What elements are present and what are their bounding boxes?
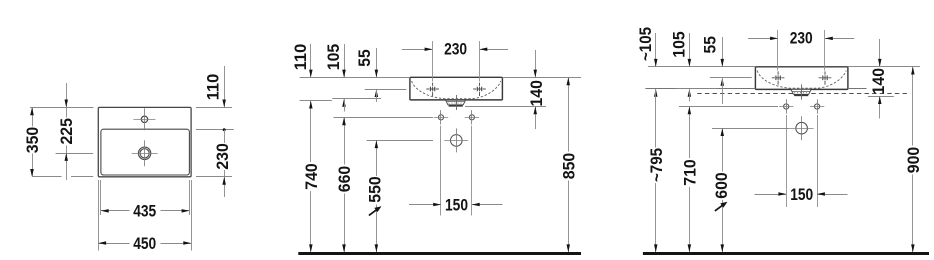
countertop top line left [645,88,755,90]
trap centerline (right) [801,85,803,100]
drain crosshair [132,140,158,166]
dim line 600 [722,128,724,171]
dim line 850 [568,77,570,151]
arrow ~105 up to countertop [654,89,658,97]
arrow 225 bottom (pointing up) [65,153,69,161]
tap hole mark left (right view) [772,71,785,84]
washbasin top view: outer rim 450x350 [98,107,191,176]
arrow 230 bottom (pointing up) [222,177,226,185]
ext line left hole down (right view) [786,115,788,207]
ext line outer-right down [191,180,193,251]
countertop underside dashed line [697,93,910,95]
arrow 225 top (pointing down) [65,100,69,108]
drain pipe circle (front view) [451,135,463,147]
dim line 450 right segment [161,243,192,245]
mounting hole left (front view) [438,115,443,120]
trap bottom flange [449,105,463,107]
ext line top edge (left view, left side) [30,107,94,109]
ext line bottom edge (left view, left side) part1 [32,176,62,178]
tap hole mark left (front view) [426,83,439,96]
arrow 230 right (pointing left) [480,48,488,52]
dim line 435 left segment [101,210,130,212]
arrow ~795 floor [654,244,658,252]
ext line outer-left down [98,180,100,251]
dim line 105 above rim [344,44,346,77]
svg-text:435: 435 [133,202,156,221]
arrow 55 down at rim [375,70,379,78]
tap hole mark right (right view) [819,71,832,84]
mounting hole level ext line (660) [334,117,434,119]
hidden bowl outline dashed (right view) [757,71,846,89]
rim ext line left (middle view) [300,77,410,79]
ext line inner-right down [189,180,191,215]
trap inner line [447,101,465,103]
arrow 230 left (pointing right) [425,48,433,52]
drain pipe circle (right view) [796,122,808,134]
arrow 150 right (right view) [817,192,825,196]
tap hole crosshair [134,108,156,130]
floor line (middle view) [298,252,581,255]
dim line 350 lower segment [32,154,34,177]
arrow 435 right [182,209,190,213]
trap level ext line (110) [300,100,332,102]
svg-text:~795: ~795 [647,148,666,182]
svg-text:550: 550 [366,176,385,203]
arrow 105 up to basin bottom [342,99,346,107]
dim line 140 above (right view) [879,39,881,67]
trap inner line (right) [792,91,810,93]
arrow 550 floor [375,244,379,252]
mounting hole right crosshair (right view) [810,99,824,113]
arrow 600 top [721,128,725,136]
floor line (right view) [643,252,929,255]
arrow 710 top [688,107,692,115]
dim line 140 below [535,106,537,129]
ext line drain center (left view) [56,153,94,155]
rim ext line right (middle view) [502,77,581,79]
drain hole outer circle (top view) [138,147,150,159]
trap bottom flange (right) [794,94,808,96]
mounting hole level ext line (710) [679,106,778,108]
trap bottom ext line (140) [465,106,546,108]
dim line 105 above rim (right view) [689,33,691,67]
dim line ~795 [655,100,657,148]
dim line 225 below (arrow from outside) [66,153,68,180]
arrow 900 floor [911,244,915,252]
arrow 230 left (right view) [770,37,778,41]
drain pipe crosshair (right view) [790,116,814,140]
trap thread ticks [449,103,461,104]
140 lower ext line (right view) [868,96,894,98]
svg-text:150: 150 [445,196,468,215]
svg-text:150: 150 [790,185,813,204]
drain level ext line (600) [712,128,789,130]
mounting hole right crosshair [465,110,479,124]
ext line right hole down to 150 [471,126,473,216]
arrow 105 down at rim [342,70,346,78]
arrow 110 (pointing down) [222,100,226,108]
svg-text:230: 230 [444,39,467,58]
svg-text:55: 55 [355,49,374,67]
tap hole (top view) [141,116,147,122]
dim line 150 left (outside) [409,204,441,206]
drain pipe crosshair [444,128,468,152]
dim line 900 [912,67,914,146]
dim line 710 [689,107,691,159]
ext line tap left up to 230 dim [432,41,434,82]
svg-text:660: 660 [335,166,354,193]
svg-text:900: 900 [904,147,923,174]
basin bottom ext line (105) [332,98,381,100]
dim line 55 above rim [376,48,378,77]
svg-text:740: 740 [302,163,321,190]
arrow 435 left [101,209,109,213]
arrow 55 down (right view) [721,59,725,67]
drain trap outline (front view) [446,100,466,105]
arrow 550 top [375,140,379,148]
arrow 230 right (right view) [825,37,833,41]
trap ticks (right) [795,92,807,93]
svg-text:~105: ~105 [636,27,655,61]
ext line tap right up (right view) [824,30,826,71]
arrow 450 left [98,241,106,245]
dim line 225 inner lower [66,146,68,154]
arrow 140 down (right view) [878,59,882,67]
dim line 230 below [224,177,226,197]
mounting hole left crosshair (right view) [779,99,793,113]
arrow 600 floor [721,244,725,252]
svg-text:105: 105 [324,44,343,71]
arrow 150 right (pointing left) [472,203,480,207]
svg-text:350: 350 [23,127,42,154]
svg-text:55: 55 [701,36,720,54]
dim line 740 [310,101,312,162]
drain hole inner circle [140,149,149,158]
arrow 150 left (right view) [778,192,786,196]
arrow 450 right [183,241,191,245]
washbasin front view (wall mount) [410,77,503,100]
arrow 350 bottom [30,169,34,177]
trap centerline [456,95,458,110]
drain trap outline (right view) [791,90,811,95]
tap level ext line (right view) [710,77,752,79]
hidden bowl outline (dashed) [412,81,501,99]
dim line 230 left (right view) [748,38,778,40]
rim ext line left (right view) [648,66,756,68]
washbasin top view: inner bowl rect 435x230 [101,129,189,175]
dim line 110 above [224,66,226,107]
dim line 150 left (right view) [755,194,787,196]
svg-text:230: 230 [790,29,813,48]
arrow 660 floor [342,244,346,252]
arrow 140 down at rim [534,70,538,78]
dim line 230 lower segment [224,170,226,177]
ext line bottom edge (left view, right side) [196,176,232,178]
dim line 150 right (outside) [472,204,503,206]
dim line 230 left (outside) [402,49,433,51]
svg-text:110: 110 [291,44,310,71]
dim line 140 above [535,50,537,77]
countertop top line right [848,88,867,90]
dim line 55 above rim (right view) [722,37,724,67]
ext line left hole down to 150 [440,126,442,216]
variable-dim mark near 550 [369,210,377,216]
dim line 110 above rim [310,44,312,77]
arrow 105 up to basin bottom (right view) [688,89,692,97]
ext line inner-left down [100,180,102,215]
svg-text:710: 710 [680,159,699,186]
ext line top edge (left view, right side) [196,107,232,109]
ext line inner-top with dot tick [196,129,234,131]
ext line tap right up to 230 dim [479,41,481,82]
mounting hole right (front view) [469,115,474,120]
svg-text:105: 105 [670,31,689,58]
basin-bottom ext segment (105) [675,88,717,90]
svg-text:140: 140 [869,68,888,95]
arrow 850 floor [567,244,571,252]
svg-text:140: 140 [527,80,546,107]
dim line 230 right (right view) [825,38,854,40]
arrow 710 floor [688,244,692,252]
dim line 225 inner upper [66,107,68,117]
arrow 660 top [342,117,346,125]
arrow 140 up [534,106,538,114]
svg-text:450: 450 [133,234,156,253]
arrow 55 up to tap level [375,89,379,97]
washbasin front view (countertop) [755,67,848,90]
arrow ~105 down [654,59,658,67]
chain dot at 110/230 junction [223,128,226,131]
arrow 140 up (right view) [878,96,882,104]
ext line tap left up (right view) [777,30,779,71]
arrow 150 left (pointing right) [433,203,441,207]
dim line 435 right segment [161,210,190,212]
svg-text:110: 110 [204,74,223,101]
dim line 660 [344,117,346,164]
arrow 900 top [911,67,915,75]
tap level ext line (55) [365,89,407,91]
mounting hole left crosshair [434,110,448,124]
arrow 110 down at rim [309,70,313,78]
dim line 550 [376,140,378,176]
dim line 350 upper segment [32,107,34,126]
svg-text:850: 850 [559,153,578,180]
svg-text:230: 230 [213,143,232,170]
dim line ~105 above rim [655,33,657,67]
svg-text:600: 600 [712,172,731,199]
arrow 55 up to tap level (right view) [721,78,725,86]
ext line bottom edge part2 [71,176,93,178]
tap hole mark right (front view) [473,83,486,96]
ext line right hole down (right view) [817,115,819,207]
arrow 105 down (right view) [688,59,692,67]
arrow 850 top [567,77,571,85]
rim ext line right (right view) [848,66,920,68]
svg-text:225: 225 [57,118,76,145]
variable-dim mark near 600 [715,205,723,211]
mounting hole left (right view) [784,104,789,109]
mounting hole right (right view) [815,104,820,109]
dim line 150 right (right view) [817,194,847,196]
arrow 740 floor [309,244,313,252]
dim line 230 upper segment [224,130,226,143]
arrow 740 top (shared with 110 bottom) [309,101,313,109]
dim line 450 left segment [98,243,129,245]
dim line 140 below (right view) [879,96,881,118]
dim line 225 above (arrow from outside) [66,83,68,107]
dim line 230 right (outside) [480,49,509,51]
arrow 350 top [30,107,34,115]
drain level ext line (550) [367,140,434,142]
